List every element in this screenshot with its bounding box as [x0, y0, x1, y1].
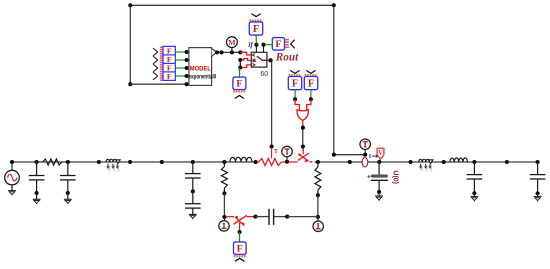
CT ellipse [362, 158, 368, 167]
node below R3 [316, 193, 320, 197]
function block stack F7-F10 [163, 46, 175, 81]
label Rout [275, 52, 299, 64]
ground C7 [471, 197, 479, 202]
function block F3 [233, 77, 246, 89]
wire green F5 [309, 90, 313, 102]
function block F6 [234, 242, 247, 254]
ground source [8, 191, 16, 196]
svg-text:F: F [292, 78, 298, 89]
function block F5 [304, 77, 317, 90]
capacitor C7 [467, 160, 483, 196]
breaker BRK2 [226, 215, 257, 235]
arrow into F5 [306, 70, 315, 73]
capacitor C2 [60, 162, 76, 199]
current probe T6 [360, 139, 371, 153]
label T control [274, 148, 279, 155]
node bus mid-right [348, 160, 352, 164]
node V junction [377, 160, 381, 164]
AC source ES [5, 160, 20, 190]
wire main bus right segment [314, 161, 537, 163]
resistor R2 vertical [221, 162, 227, 193]
OR gate G1 [297, 110, 308, 121]
svg-text:U(0): U(0) [391, 170, 398, 184]
wire green F1 [255, 35, 257, 45]
svg-text:F: F [253, 24, 259, 35]
current probe T1 [219, 217, 230, 231]
hatches F5 [305, 74, 315, 76]
ground C6 [375, 196, 383, 201]
svg-text:exponential0: exponential0 [189, 74, 217, 81]
arrow into F3 [235, 96, 244, 99]
wire OR output [301, 121, 305, 149]
svg-text:F: F [167, 72, 172, 81]
wire main bus left segment [12, 161, 257, 163]
MODEL block U1 [189, 48, 217, 86]
node bridge left [222, 160, 226, 164]
node below R2 [222, 191, 226, 195]
function block F4 [288, 77, 301, 90]
wire lower path right [287, 216, 318, 218]
node after R1 [66, 160, 70, 164]
hatches F1 [250, 19, 260, 21]
capacitor C8 [530, 160, 546, 196]
hatches F3 [234, 90, 244, 93]
inductor L4 [450, 158, 468, 162]
label if [248, 41, 253, 49]
svg-text:V: V [378, 149, 383, 157]
svg-text:F: F [308, 78, 314, 89]
voltmeter V1 [377, 148, 384, 162]
capacitor C3 [185, 162, 201, 178]
arrow into F1 [251, 14, 260, 17]
svg-text:M: M [228, 38, 236, 47]
breaker BRK1 [298, 147, 312, 162]
node Rv-T3 [285, 160, 289, 164]
node BRK1 right [316, 160, 320, 164]
arrows into F stack [153, 48, 157, 80]
capacitor C4 [185, 191, 201, 214]
hatches F2 [285, 40, 289, 48]
node right3 [505, 160, 509, 164]
svg-text:Rout: Rout [275, 52, 299, 64]
svg-text:60: 60 [260, 71, 268, 78]
label 60 [260, 71, 268, 78]
variable resistor Rv control wire [267, 58, 274, 148]
capacitor C5 lower path [255, 209, 289, 225]
wire R2 to lower path [222, 193, 226, 219]
hatches F6 [235, 255, 245, 258]
inductor L3 with arrows [419, 159, 433, 172]
svg-text:F: F [236, 79, 242, 90]
function block F2 [272, 38, 284, 51]
variable resistor Rv [257, 148, 297, 166]
hooks into OR gate [295, 99, 311, 110]
label U0 [391, 170, 398, 184]
wire loop to model [130, 82, 189, 86]
arrow into F6 [235, 258, 244, 261]
inductor L1 with arrows [106, 159, 120, 172]
wire green F2 [266, 44, 273, 46]
ground C1 [33, 199, 41, 204]
current probe T2 [313, 217, 324, 232]
wire green F3 [239, 68, 241, 78]
svg-text:F: F [275, 39, 281, 50]
capacitor C6 with initial voltage [371, 162, 388, 196]
svg-text:MODEL: MODEL [190, 66, 211, 73]
label I arrow [369, 154, 379, 160]
hatches F stack [160, 47, 163, 80]
wire green BRK2 control [239, 232, 241, 242]
ground C2 [64, 199, 72, 204]
wire green F4 [293, 90, 297, 102]
hooks red into switch [238, 52, 251, 69]
ground series caps [189, 214, 197, 219]
wires green stack to MODEL [175, 50, 189, 78]
ground C8 [534, 197, 542, 202]
capacitor C1 [29, 160, 45, 199]
current probe T3 [282, 146, 293, 159]
wire loop right to T6 node [332, 153, 368, 157]
switch block SW1 [251, 43, 267, 67]
arrow into F4 [290, 70, 299, 73]
wire R3 to lower path [316, 195, 320, 219]
wire top loop [128, 3, 336, 154]
node series-cap branch [191, 160, 195, 164]
hatches F4 [289, 74, 299, 76]
node right2 [442, 160, 446, 164]
svg-text:F: F [237, 243, 243, 254]
node mid bus [160, 160, 164, 164]
node after L1 [128, 160, 132, 164]
arrow into F2 [291, 40, 295, 49]
wire MODEL output [215, 50, 247, 54]
resistor R1 [43, 159, 63, 165]
inductor L2 [230, 157, 258, 164]
node before L1 [97, 160, 101, 164]
label plus [368, 175, 371, 178]
svg-text:if: if [248, 41, 253, 49]
node right1 [409, 160, 413, 164]
resistor R3 vertical [315, 162, 321, 195]
function block F1 [249, 22, 262, 35]
junction series caps [191, 178, 195, 193]
meter M1 [227, 37, 238, 53]
